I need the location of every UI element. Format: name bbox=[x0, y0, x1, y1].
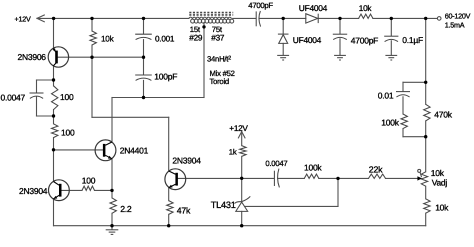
svg-text:0.0047: 0.0047 bbox=[265, 159, 287, 168]
svg-text:+12V: +12V bbox=[229, 124, 248, 133]
svg-text:TL431: TL431 bbox=[211, 200, 236, 210]
svg-text:2.2: 2.2 bbox=[120, 204, 132, 214]
svg-text:60-120V: 60-120V bbox=[445, 12, 471, 21]
svg-text:470k: 470k bbox=[434, 109, 452, 119]
svg-text:+12V: +12V bbox=[15, 14, 31, 23]
svg-text:2N3904: 2N3904 bbox=[172, 156, 201, 166]
svg-text:0.001: 0.001 bbox=[155, 34, 175, 43]
svg-text:10k: 10k bbox=[431, 168, 445, 178]
svg-text:#37: #37 bbox=[211, 34, 225, 43]
svg-text:10k: 10k bbox=[101, 34, 115, 43]
svg-text:34nH/t2: 34nH/t2 bbox=[207, 55, 231, 64]
svg-text:100k: 100k bbox=[304, 162, 322, 172]
svg-text:100: 100 bbox=[61, 127, 75, 137]
svg-text:UF4004: UF4004 bbox=[293, 35, 322, 45]
svg-text:15t: 15t bbox=[190, 25, 201, 34]
svg-text:10k: 10k bbox=[435, 203, 449, 213]
svg-text:1.5mA: 1.5mA bbox=[445, 21, 465, 30]
svg-text:47k: 47k bbox=[177, 205, 191, 215]
svg-text:1k: 1k bbox=[229, 148, 237, 157]
svg-text:4700pF: 4700pF bbox=[351, 35, 378, 45]
svg-text:75t: 75t bbox=[212, 25, 223, 34]
svg-text:0.01: 0.01 bbox=[378, 91, 394, 101]
svg-text:0.1µF: 0.1µF bbox=[402, 35, 423, 45]
svg-text:100k: 100k bbox=[381, 118, 399, 128]
svg-text:UF4004: UF4004 bbox=[299, 3, 328, 13]
svg-text:Vadj: Vadj bbox=[432, 178, 448, 188]
svg-text:#29: #29 bbox=[189, 34, 203, 43]
svg-text:100pF: 100pF bbox=[154, 71, 177, 81]
svg-text:4700pF: 4700pF bbox=[248, 1, 273, 10]
svg-text:22k: 22k bbox=[369, 164, 383, 174]
svg-text:10k: 10k bbox=[359, 4, 373, 13]
svg-text:Toroid: Toroid bbox=[210, 77, 229, 86]
svg-text:2N3904: 2N3904 bbox=[19, 186, 48, 196]
svg-text:100: 100 bbox=[60, 92, 74, 102]
svg-text:2N3906: 2N3906 bbox=[18, 52, 47, 62]
svg-text:100: 100 bbox=[82, 175, 96, 185]
svg-text:0.0047: 0.0047 bbox=[1, 92, 26, 102]
svg-text:2N4401: 2N4401 bbox=[120, 145, 149, 155]
